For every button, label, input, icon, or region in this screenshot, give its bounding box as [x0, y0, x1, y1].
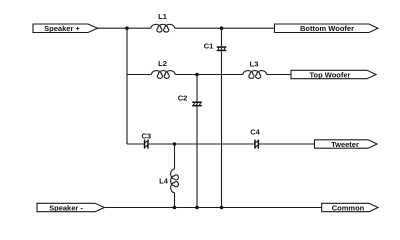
svg-text:Top Woofer: Top Woofer — [310, 70, 351, 79]
wire: Speaker + tag to left bus junction — [98, 27, 128, 29]
svg-text:C3: C3 — [142, 132, 152, 141]
inductor L2 — [152, 71, 176, 79]
net tag "Speaker +" — [33, 24, 98, 33]
svg-text:Speaker -: Speaker - — [49, 203, 83, 212]
wire: C3 to L4 node — [149, 143, 175, 145]
wire: bus corner to C3 — [127, 143, 144, 145]
net tag "Tweeter" — [315, 140, 378, 149]
svg-text:L1: L1 — [158, 12, 167, 21]
wire: L4 branch lower — [174, 193, 176, 208]
junction: top of left bus — [125, 26, 129, 30]
wire: C4 to Tweeter tag — [259, 143, 314, 145]
inductor L3 — [243, 71, 267, 79]
junction: L4 node on tweeter rail — [173, 142, 177, 146]
junction: C1 node on top rail — [220, 26, 224, 30]
wire: L1 to C1 node — [175, 27, 222, 29]
wire: junction to L1 — [127, 27, 151, 29]
wire: C1 branch upper — [221, 28, 223, 46]
svg-text:L4: L4 — [159, 177, 169, 186]
wire: bottom rail L4 to C2 — [175, 207, 198, 209]
wire: C1 branch lower — [221, 51, 223, 207]
wire: C2 node to L3 — [197, 74, 243, 76]
wire: L2 to C2 node — [175, 74, 197, 76]
wire: Speaker - tag to L4 junction — [105, 207, 175, 209]
net tag "Speaker -" — [37, 203, 105, 212]
wire: C2 branch lower — [196, 106, 198, 207]
svg-text:Common: Common — [332, 203, 365, 212]
svg-text:Tweeter: Tweeter — [331, 140, 359, 149]
wire: L3 to Top Woofer tag — [267, 74, 291, 76]
junction: L4 on bottom rail — [173, 206, 177, 210]
wire: bottom rail to Common tag — [222, 207, 322, 209]
inductor L4 — [171, 169, 179, 193]
net tag "Bottom Woofer" — [275, 24, 379, 33]
svg-text:Speaker +: Speaker + — [44, 24, 80, 33]
svg-text:C1: C1 — [204, 42, 214, 51]
net tag "Top Woofer" — [291, 70, 376, 79]
wire: left vertical bus — [126, 28, 128, 144]
inductor L1 — [151, 24, 175, 32]
svg-text:Bottom Woofer: Bottom Woofer — [300, 24, 354, 33]
capacitor C3 — [144, 140, 149, 149]
capacitor C2 — [192, 102, 202, 107]
junction: C1 on bottom rail — [220, 206, 224, 210]
wire: bus to L2 — [127, 74, 152, 76]
svg-text:C2: C2 — [178, 94, 188, 103]
junction: C2 on bottom rail — [195, 206, 199, 210]
svg-text:L2: L2 — [158, 59, 167, 68]
junction: C2 node on mid rail — [195, 73, 199, 77]
svg-text:L3: L3 — [250, 60, 259, 69]
net tag "Common" — [322, 203, 378, 212]
wire: C2 branch upper — [196, 75, 198, 102]
wire: L4 node to C4 — [175, 143, 255, 145]
wire: bottom rail C2 to C1 — [197, 207, 222, 209]
wire: L4 branch upper — [174, 144, 176, 169]
capacitor C4 — [254, 140, 259, 149]
wire: C1 node to Bottom Woofer tag — [222, 27, 275, 29]
capacitor C1 — [217, 46, 227, 51]
svg-text:C4: C4 — [250, 128, 260, 137]
